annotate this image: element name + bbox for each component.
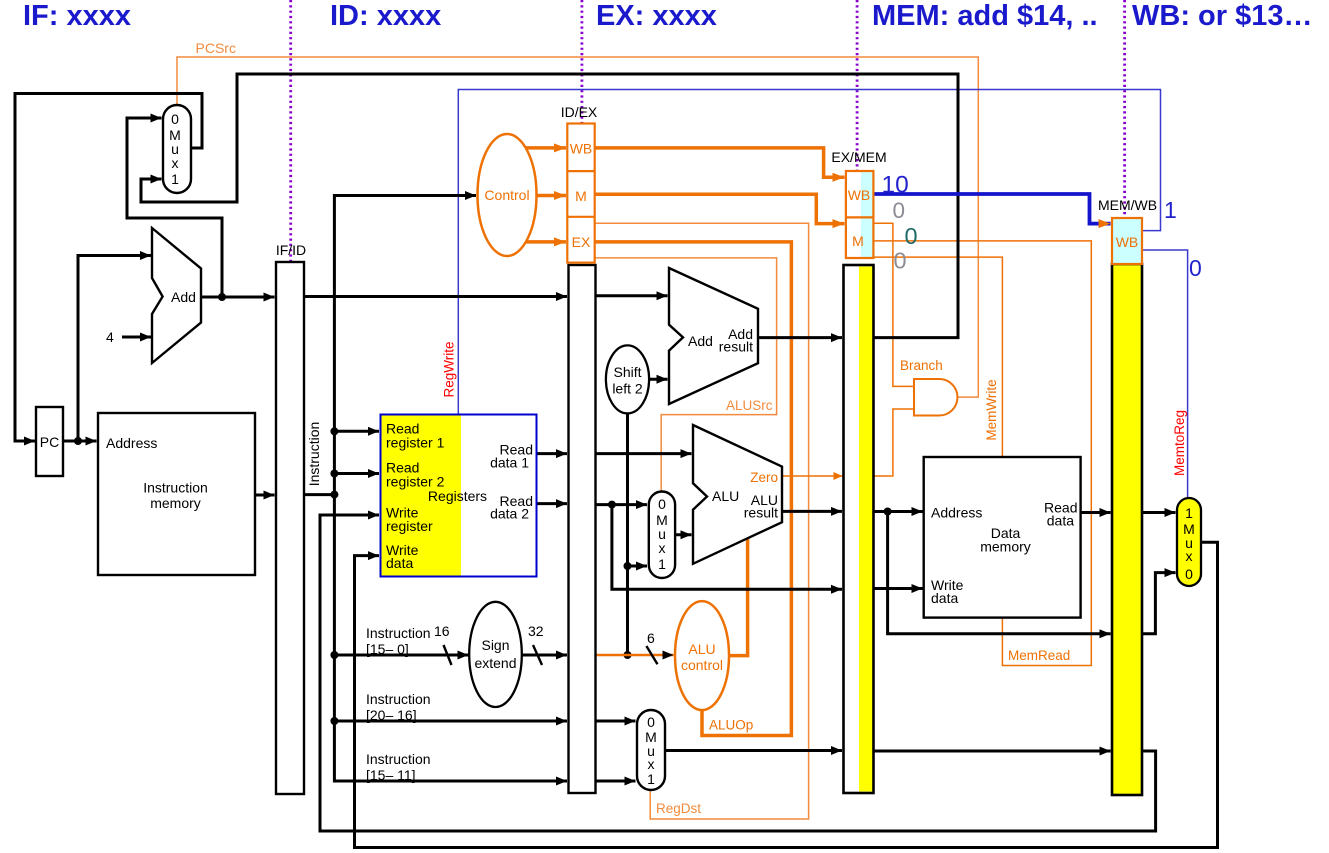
wire read data to MEM/WB xyxy=(1081,511,1111,514)
label 16 and slash xyxy=(444,645,452,665)
svg-text:PCSrc: PCSrc xyxy=(196,40,236,56)
register MEM/WB xyxy=(1112,264,1142,795)
stage divider EX/MEM xyxy=(856,0,859,170)
mux PC source xyxy=(163,105,191,193)
register ID/EX xyxy=(569,265,596,793)
svg-text:WB: or $13…: WB: or $13… xyxy=(1132,0,1312,32)
svg-text:0: 0 xyxy=(1185,566,1193,582)
AND gate branch xyxy=(914,379,957,416)
wire funct field to ALU control xyxy=(596,654,674,657)
wire read data 2 ID/EX to ALU mux 0 xyxy=(596,503,648,506)
svg-text:Control: Control xyxy=(484,187,529,203)
svg-text:WB: WB xyxy=(1116,234,1139,250)
svg-text:[20– 16]: [20– 16] xyxy=(366,707,417,723)
svg-text:MemWrite: MemWrite xyxy=(984,379,999,440)
svg-text:extend: extend xyxy=(474,655,516,671)
node instruction 15-0 junction xyxy=(330,651,338,659)
svg-text:result: result xyxy=(719,339,753,355)
wire Control to ID/EX.EX xyxy=(523,240,566,244)
svg-text:Instruction: Instruction xyxy=(143,480,208,496)
svg-text:register: register xyxy=(386,518,433,534)
svg-text:Add: Add xyxy=(688,333,713,349)
stage divider IF/ID xyxy=(289,0,292,288)
svg-text:M: M xyxy=(575,188,587,204)
svg-text:RegDst: RegDst xyxy=(656,801,701,816)
mux ALUSrc xyxy=(649,492,675,579)
node instruction 20-16 junction xyxy=(330,717,338,725)
svg-text:10: 10 xyxy=(882,172,909,199)
svg-text:ALU: ALU xyxy=(688,641,715,657)
wire write data from WB mux xyxy=(355,542,1218,847)
node instruction to read register 1 xyxy=(330,427,338,435)
wire RegDst (ID/EX.EX to RegDst mux select) xyxy=(596,223,809,819)
svg-text:RegWrite: RegWrite xyxy=(442,341,457,397)
svg-text:MemtoReg: MemtoReg xyxy=(1172,410,1187,476)
wire ALU result bypass to MEM/WB xyxy=(888,512,1111,634)
label 32 and slash xyxy=(533,645,542,665)
svg-text:0: 0 xyxy=(1189,255,1202,281)
svg-text:WB: WB xyxy=(570,141,593,157)
wire ALU result MEM/WB to WB mux 0 xyxy=(1142,573,1176,634)
wire Branch (EX/MEM.M to AND gate) xyxy=(873,223,914,386)
svg-text:WB: WB xyxy=(848,187,871,203)
node immediate to ALU mux 1 xyxy=(624,562,632,570)
svg-text:Instruction: Instruction xyxy=(306,422,322,487)
svg-text:memory: memory xyxy=(150,495,201,511)
wire instruction 20-16 to ID/EX xyxy=(334,720,567,723)
wire to read register 1 xyxy=(334,430,379,433)
svg-text:1: 1 xyxy=(171,171,179,187)
wire ALUOp (ID/EX.EX to ALU control) xyxy=(596,242,792,736)
svg-text:Zero: Zero xyxy=(750,470,778,485)
svg-text:M: M xyxy=(852,233,864,249)
svg-text:1: 1 xyxy=(1164,197,1177,223)
svg-text:ALU: ALU xyxy=(712,488,739,504)
wire instruction 15-0 to sign extend xyxy=(334,654,468,657)
svg-text:Address: Address xyxy=(931,505,982,521)
svg-text:1: 1 xyxy=(658,556,666,572)
svg-text:MEM/WB: MEM/WB xyxy=(1098,197,1157,213)
wire to read register 2 xyxy=(334,472,379,475)
svg-text:EX/MEM: EX/MEM xyxy=(831,149,886,165)
wire register number EX/MEM to MEM/WB xyxy=(873,750,1110,753)
svg-text:data 2: data 2 xyxy=(490,506,529,522)
register IF/ID xyxy=(276,262,304,794)
svg-text:4: 4 xyxy=(106,329,114,345)
mux RegDst xyxy=(637,710,665,790)
wire read data 2 to ID/EX xyxy=(536,502,567,505)
MEM/WB control box WB xyxy=(1112,218,1142,264)
svg-text:IF: xxxx: IF: xxxx xyxy=(23,0,131,32)
ID/EX control box WB/M/EX xyxy=(567,124,594,263)
svg-text:Branch: Branch xyxy=(900,358,943,373)
wire ALUSrc (ID/EX.EX to ALU mux select) xyxy=(596,258,777,492)
svg-text:IF/ID: IF/ID xyxy=(276,242,306,258)
registers file xyxy=(381,415,537,577)
node instruction bus junction xyxy=(330,491,338,499)
svg-text:0: 0 xyxy=(894,248,907,274)
svg-text:ID: xxxx: ID: xxxx xyxy=(330,0,441,32)
svg-text:0: 0 xyxy=(171,111,179,127)
wire ID/EX.M to EX/MEM.M xyxy=(595,194,845,223)
ALU xyxy=(693,425,782,564)
wire instr 15-11 ID/EX to RegDst mux 1 xyxy=(596,780,636,783)
wire read data 1 to ID/EX xyxy=(536,452,567,455)
svg-text:EX: EX xyxy=(572,234,591,250)
adder Add (PC+4) xyxy=(152,228,201,363)
wire instruction distribution down xyxy=(334,495,567,781)
svg-text:0: 0 xyxy=(905,223,918,249)
svg-text:1: 1 xyxy=(647,771,655,787)
wire RegWrite (MEM/WB.WB to Registers) blue xyxy=(458,90,1160,415)
wire ALU mux output to ALU xyxy=(675,533,691,536)
svg-text:Instruction: Instruction xyxy=(366,625,431,641)
node Add output junction xyxy=(218,293,226,301)
svg-text:x: x xyxy=(172,155,179,171)
wire PC to Add xyxy=(78,256,151,442)
wire shift left 2 to Add result xyxy=(649,378,668,381)
wire RegDst mux to EX/MEM xyxy=(665,749,842,752)
wire instr 20-16 ID/EX to RegDst mux 0 xyxy=(596,720,636,723)
node read data 2 junction xyxy=(608,501,616,509)
wire read data 1 ID/EX to ALU xyxy=(596,452,692,455)
svg-text:MemRead: MemRead xyxy=(1008,648,1070,663)
wire PC mux output to PC xyxy=(15,94,202,442)
wire instruction bus from IF/ID xyxy=(304,196,476,495)
wire Zero (EX/MEM to AND gate) xyxy=(873,409,914,476)
svg-text:0: 0 xyxy=(893,198,906,223)
node PC output junction xyxy=(74,437,82,445)
wire 4 to Add xyxy=(122,336,151,339)
svg-text:Sign: Sign xyxy=(481,637,509,653)
PC register xyxy=(36,407,63,476)
node instruction to read register 2 xyxy=(330,470,338,478)
svg-text:16: 16 xyxy=(434,623,450,639)
wire Add result to EX/MEM xyxy=(758,336,842,339)
svg-text:0: 0 xyxy=(647,714,655,730)
wire MemWrite (EX/MEM.M to data memory) xyxy=(873,257,1002,457)
wire Zero to EX/MEM xyxy=(782,475,843,477)
svg-text:MEM: add $14, ..: MEM: add $14, .. xyxy=(872,0,1098,32)
wire ALU result to EX/MEM xyxy=(782,510,842,513)
wire PC+4 to PC mux input 0 xyxy=(127,118,222,297)
wire write register from bottom xyxy=(320,515,1156,831)
svg-text:[15– 11]: [15– 11] xyxy=(366,767,416,783)
svg-text:Shift: Shift xyxy=(613,364,641,380)
wire MemRead (EX/MEM.M to data memory) xyxy=(873,241,1091,666)
svg-text:Address: Address xyxy=(106,435,157,451)
wire immediate vertical (shift left 2 / mux 1 / funct) xyxy=(626,413,629,655)
svg-text:data: data xyxy=(386,555,413,571)
wire MemtoReg (MEM/WB.WB to WB mux select) blue xyxy=(1142,250,1188,498)
wire Add output to IF/ID xyxy=(201,296,275,299)
svg-text:Instruction: Instruction xyxy=(366,751,431,767)
svg-text:0: 0 xyxy=(658,496,666,512)
register EX/MEM xyxy=(844,265,874,793)
wire EX/MEM.WB to MEM/WB.WB blue xyxy=(873,194,1110,224)
wire sign extend to ID/EX xyxy=(522,654,568,657)
svg-text:PC: PC xyxy=(40,434,59,450)
wire Control to ID/EX.WB xyxy=(523,146,566,150)
svg-text:ALUSrc: ALUSrc xyxy=(726,398,773,413)
wire instruction memory to IF/ID xyxy=(255,494,275,497)
svg-text:ALUOp: ALUOp xyxy=(709,718,753,733)
instruction memory xyxy=(98,413,255,575)
svg-text:memory: memory xyxy=(980,539,1031,555)
svg-text:Registers: Registers xyxy=(428,488,487,504)
wire PC+4 ID/EX to Add result xyxy=(596,294,668,297)
stage divider ID/EX xyxy=(581,0,584,127)
shift left 2 unit xyxy=(606,345,649,413)
svg-text:control: control xyxy=(681,657,723,673)
svg-text:ID/EX: ID/EX xyxy=(561,104,598,120)
svg-text:1: 1 xyxy=(1185,505,1193,521)
mux WB (MemtoReg) xyxy=(1177,498,1201,586)
svg-text:32: 32 xyxy=(528,623,544,639)
svg-text:Instruction: Instruction xyxy=(366,691,431,707)
node immediate funct junction xyxy=(624,651,632,659)
wire ALU control to ALU xyxy=(729,537,748,656)
sign extend unit xyxy=(469,602,522,707)
svg-text:register 1: register 1 xyxy=(386,435,445,451)
svg-text:x: x xyxy=(659,540,666,556)
wire immediate to ALU mux 1 xyxy=(628,565,648,568)
wire PC+4 IF/ID to ID/EX xyxy=(304,295,567,298)
svg-text:EX: xxxx: EX: xxxx xyxy=(596,0,717,32)
EX/MEM control box WB/M xyxy=(861,171,873,258)
svg-text:[15– 0]: [15– 0] xyxy=(366,641,409,657)
svg-text:data 1: data 1 xyxy=(490,455,529,471)
wire write data EX/MEM to data memory xyxy=(873,587,922,590)
svg-text:Add: Add xyxy=(171,289,196,305)
wire read data MEM/WB to WB mux 1 xyxy=(1142,511,1176,514)
label 6 and slash xyxy=(646,646,657,664)
control unit Control xyxy=(478,134,537,256)
svg-text:data: data xyxy=(931,590,958,606)
adder Add result xyxy=(669,268,758,404)
node ALU result junction xyxy=(884,508,892,516)
wire write data to EX/MEM xyxy=(612,505,842,590)
svg-text:x: x xyxy=(1186,548,1193,564)
svg-text:left 2: left 2 xyxy=(612,381,643,397)
ALU control unit xyxy=(675,601,729,710)
wire Control to ID/EX.M xyxy=(537,194,567,198)
svg-text:6: 6 xyxy=(647,630,655,646)
data memory xyxy=(924,457,1081,618)
stage divider MEM/WB xyxy=(1123,0,1126,217)
svg-text:data: data xyxy=(1047,513,1074,529)
wire PC to instruction memory xyxy=(63,440,97,443)
wire branch target EX/MEM to PC mux input 1 xyxy=(141,74,958,338)
wire PCSrc (AND gate to PC mux select) xyxy=(177,57,978,397)
wire ID/EX.WB to EX/MEM.WB xyxy=(595,148,845,177)
svg-text:result: result xyxy=(744,505,778,521)
svg-text:x: x xyxy=(648,756,655,772)
wire ALU result EX/MEM to data memory address xyxy=(873,510,922,513)
